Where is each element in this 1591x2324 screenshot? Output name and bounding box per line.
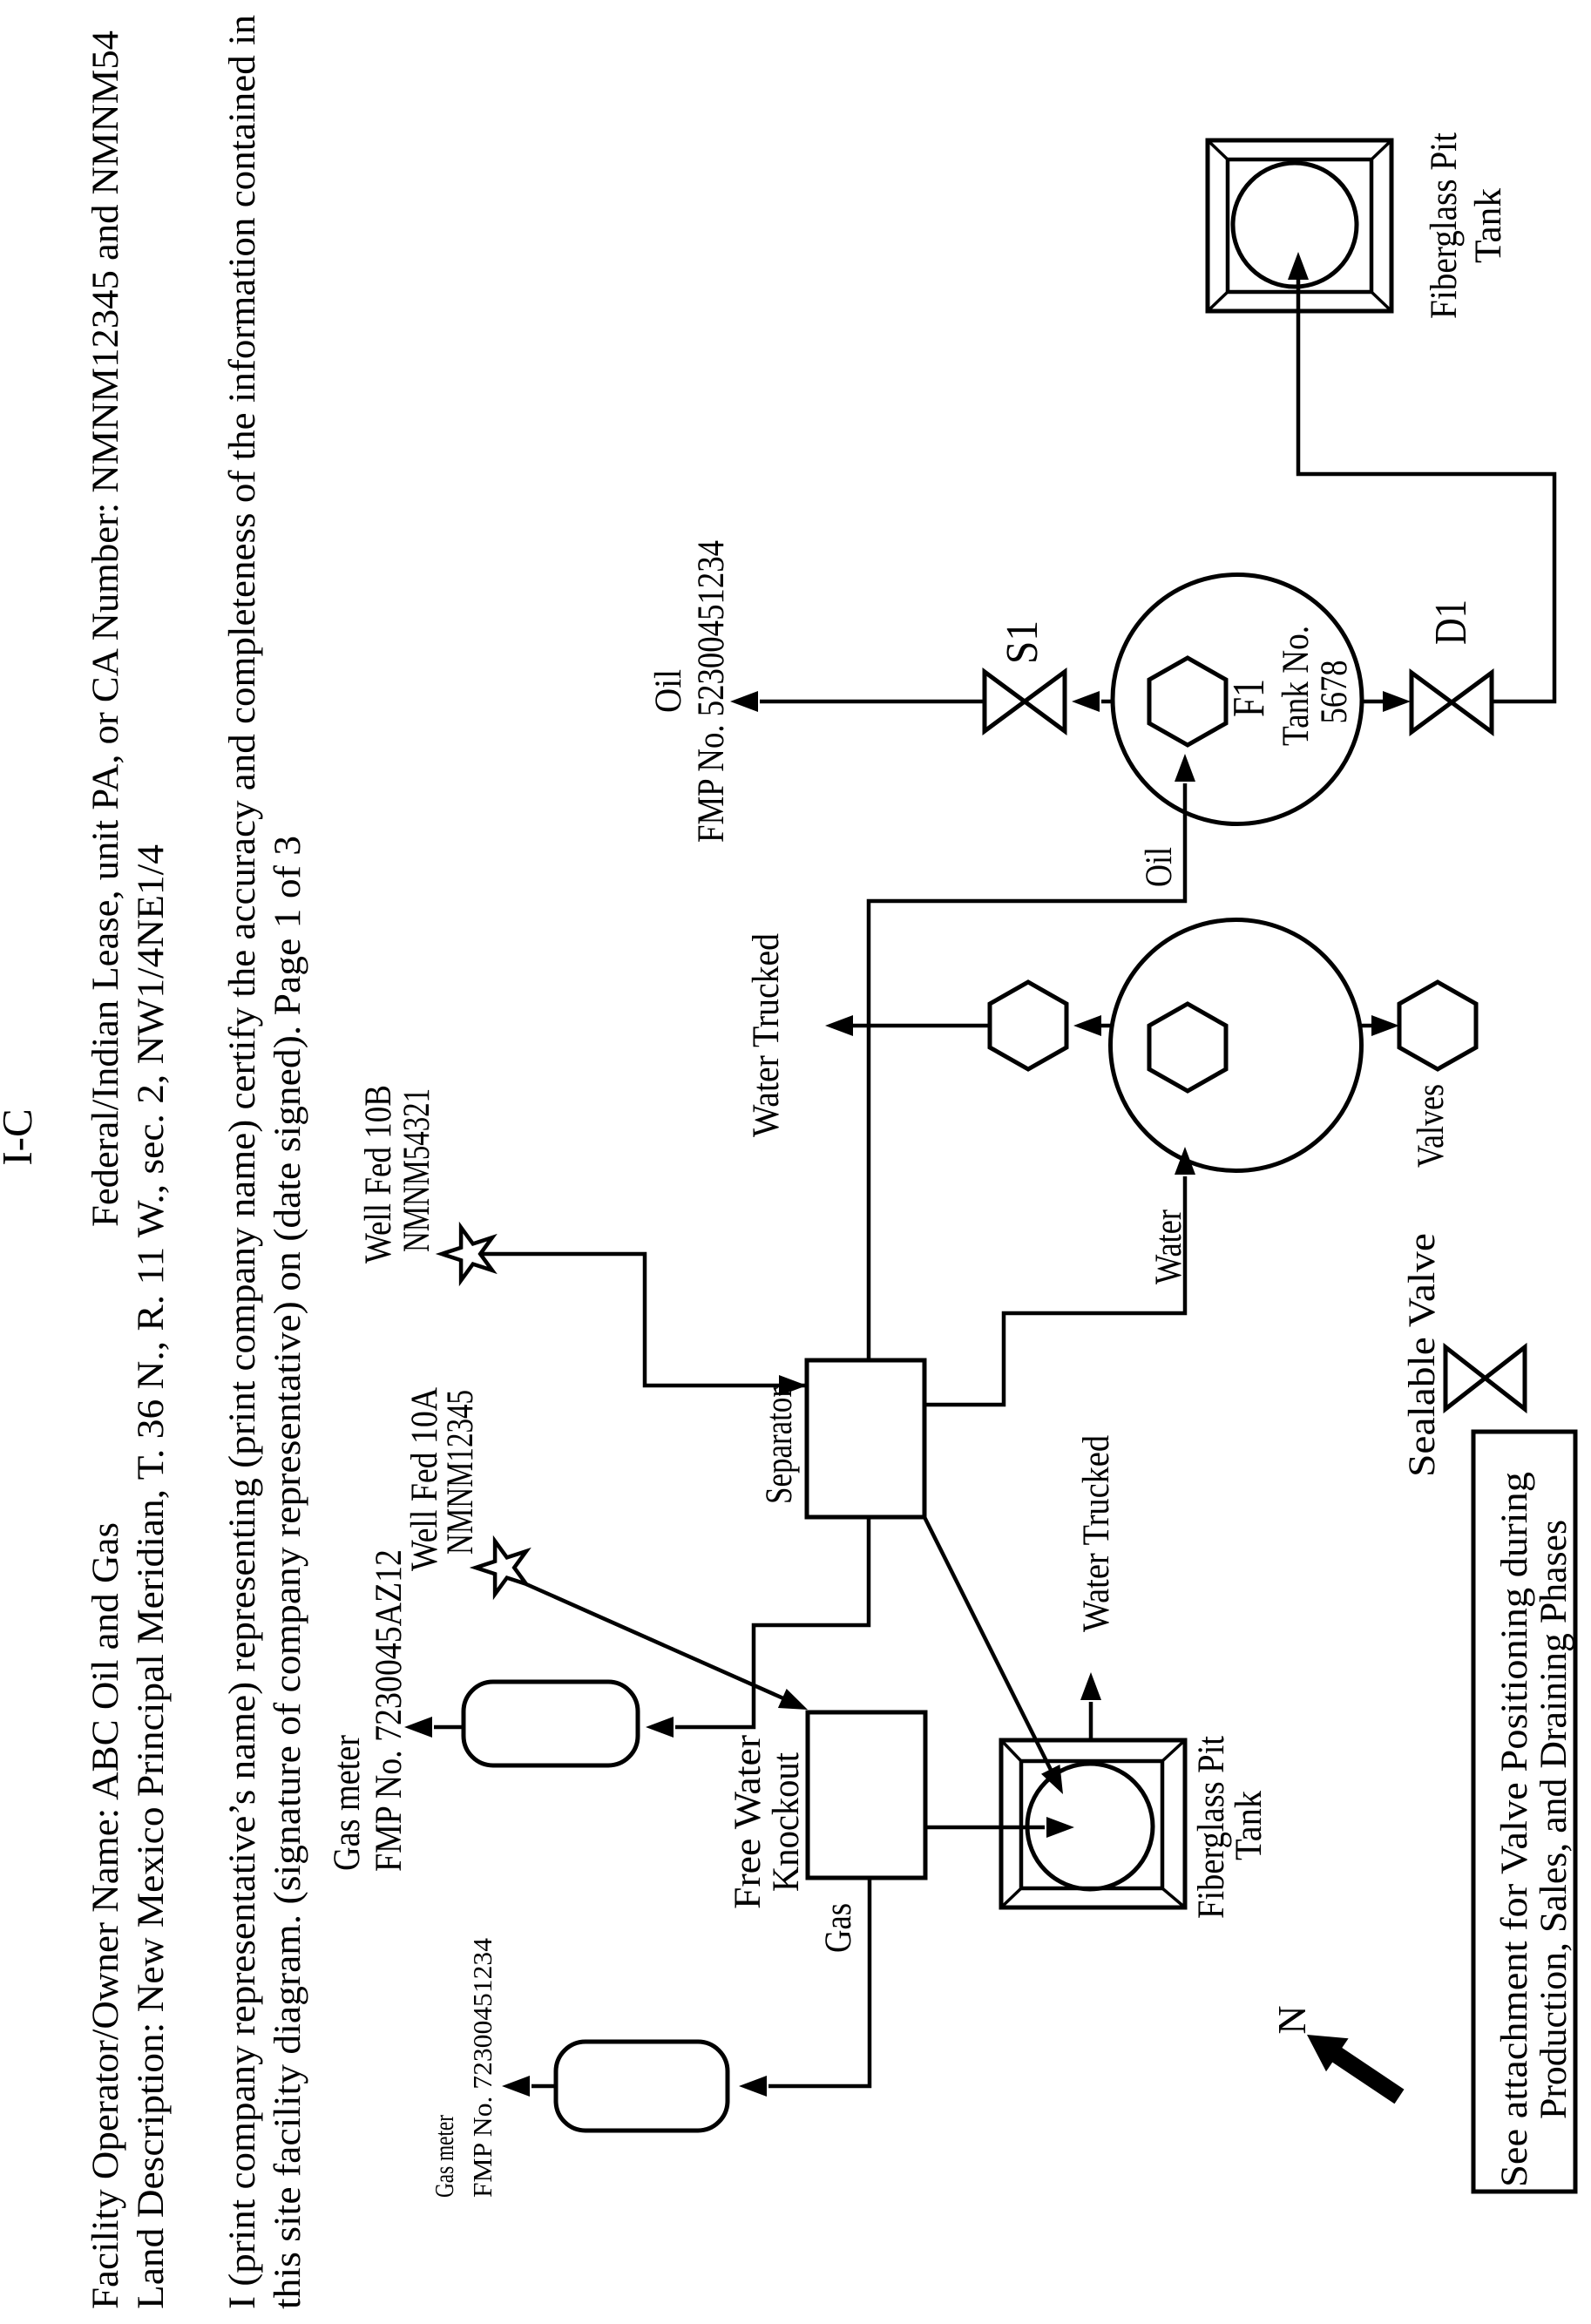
wire well 10B to separator (481, 1254, 805, 1386)
svg-text:NMNM12345: NMNM12345 (440, 1390, 481, 1555)
svg-text:Well Fed 10A: Well Fed 10A (404, 1387, 445, 1571)
well Fed 10A star (476, 1541, 526, 1595)
heater treater circle (1111, 920, 1362, 1171)
arrow heater top to hexagon (1101, 1024, 1112, 1028)
water wire separator to heater (924, 1176, 1185, 1405)
svg-text:FMP No. 52300451234: FMP No. 52300451234 (691, 540, 732, 843)
gas meter 2 outlet arrow (531, 2084, 556, 2089)
svg-text:I-C: I-C (0, 1108, 41, 1165)
svg-text:Federal/Indian Lease, unit PA,: Federal/Indian Lease, unit PA, or CA Num… (85, 30, 126, 1227)
north arrow (1307, 2035, 1405, 2104)
svg-text:5678: 5678 (1314, 661, 1355, 724)
wire separator diagonal to pit tank 1 (924, 1517, 1060, 1789)
wire well 10A to free water knockout (diagonal) (526, 1584, 799, 1705)
gas meter 1 outlet arrow (434, 1725, 464, 1730)
wire S1 to oil sales (760, 700, 984, 704)
svg-text:Facility Operator/Owner Name:: Facility Operator/Owner Name: ABC Oil an… (85, 1522, 126, 2309)
pit tank 1 outlet arrow (1089, 1702, 1093, 1740)
water trucked riser (853, 1024, 990, 1028)
hexagon inside tank F1 (1149, 658, 1226, 745)
svg-text:Fiberglass Pit: Fiberglass Pit (1424, 132, 1465, 319)
svg-text:Well Fed 10B: Well Fed 10B (358, 1085, 399, 1264)
svg-text:Gas meter: Gas meter (429, 2114, 459, 2198)
hexagon above heater (990, 982, 1066, 1069)
valve S1 (985, 672, 1065, 731)
valves hexagon below heater (1399, 982, 1476, 1069)
svg-text:Separator: Separator (759, 1387, 800, 1504)
svg-text:Free Water: Free Water (728, 1735, 768, 1909)
svg-text:Gas meter: Gas meter (327, 1735, 368, 1871)
oil wire separator to tank F1 (869, 783, 1185, 1360)
gas meter 2 capsule (556, 2042, 728, 2131)
arrow heater bottom to valves hexagon (1360, 1024, 1371, 1028)
svg-text:Water Trucked: Water Trucked (1076, 1435, 1117, 1632)
svg-text:I (print company representativ: I (print company representative’s name) … (222, 15, 263, 2309)
svg-text:S1: S1 (998, 620, 1047, 664)
svg-text:this site facility diagram. (: this site facility diagram. (signature o… (267, 836, 308, 2309)
svg-text:Knockout: Knockout (766, 1752, 807, 1892)
svg-text:FMP No. 7230045AZ12: FMP No. 7230045AZ12 (369, 1549, 410, 1872)
svg-text:NMNM54321: NMNM54321 (396, 1088, 437, 1252)
valve D1 (1412, 673, 1492, 732)
svg-text:See attachment for Valve Posit: See attachment for Valve Positioning dur… (1494, 1472, 1535, 2187)
svg-text:Tank: Tank (1468, 188, 1509, 263)
wire knockout down to pit tank 1 (925, 1826, 1045, 1830)
svg-text:Tank No.: Tank No. (1276, 626, 1317, 746)
svg-text:FMP No. 72300451234: FMP No. 72300451234 (467, 1938, 498, 2198)
svg-text:Sealable Valve: Sealable Valve (1402, 1233, 1443, 1477)
sealable valve legend symbol (1445, 1347, 1525, 1409)
gas meter 1 capsule (464, 1682, 638, 1765)
svg-text:N: N (1269, 2005, 1314, 2034)
free water knockout (808, 1712, 925, 1878)
svg-text:Water: Water (1148, 1209, 1189, 1284)
fiberglass pit tank 2 (1208, 140, 1391, 311)
svg-text:Tank: Tank (1229, 1791, 1269, 1860)
svg-text:Oil: Oil (1139, 847, 1180, 887)
svg-text:Valves: Valves (1411, 1084, 1452, 1168)
wire separator to gas meter 1 (675, 1517, 869, 1727)
arrow into separator top (779, 1375, 807, 1396)
svg-text:D1: D1 (1426, 600, 1476, 645)
tank F1 circle (1113, 575, 1362, 824)
wire D1 to fiberglass pit tank 2 (1298, 280, 1554, 701)
well Fed 10B star (442, 1228, 492, 1281)
svg-text:Water Trucked: Water Trucked (746, 933, 787, 1137)
hexagon inside heater (1149, 1004, 1226, 1091)
svg-text:Gas: Gas (818, 1903, 859, 1953)
see attachment note box (1473, 1432, 1575, 2192)
svg-text:Fiberglass Pit: Fiberglass Pit (1191, 1736, 1232, 1919)
arrow into knockout corner (778, 1689, 808, 1710)
arrow tank F1 to valve D1 (1362, 700, 1383, 704)
separator (807, 1360, 924, 1517)
svg-text:F1: F1 (1224, 679, 1274, 717)
svg-text:Land Description: New Mexico P: Land Description: New Mexico Principal M… (131, 844, 172, 2309)
svg-text:Production, Sales, and Drainin: Production, Sales, and Draining Phases (1533, 1520, 1574, 2119)
fiberglass pit tank 1 (1001, 1740, 1185, 1907)
arrow tank F1 to valve S1 (1101, 700, 1113, 704)
svg-text:Oil: Oil (648, 669, 689, 713)
wire knockout to gas meter 2 (768, 1878, 870, 2086)
